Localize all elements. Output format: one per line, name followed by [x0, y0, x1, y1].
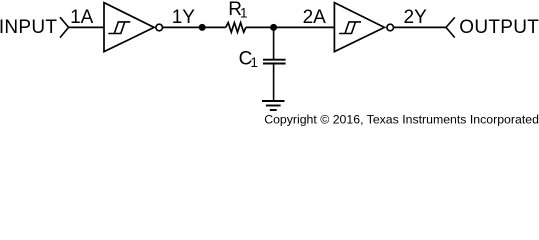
inverter U1 body — [104, 3, 154, 52]
U2 hysteresis symbol — [339, 22, 361, 34]
wire node 2A to C1 — [273, 27, 275, 59]
wire C1 to ground — [273, 64, 275, 102]
svg-text:OUTPUT: OUTPUT — [459, 17, 539, 38]
wire R1 to U2 input (net 2A) — [246, 26, 335, 28]
junction node 1Y — [199, 24, 206, 31]
U1 hysteresis symbol — [108, 22, 130, 34]
svg-text:1: 1 — [250, 55, 258, 70]
input terminal — [60, 17, 69, 37]
U2 inversion bubble — [387, 24, 394, 31]
U1 inversion bubble — [156, 24, 163, 31]
svg-text:1: 1 — [240, 5, 248, 20]
svg-text:1Y: 1Y — [172, 7, 196, 28]
svg-text:Copyright © 2016, Texas Instru: Copyright © 2016, Texas Instruments Inco… — [264, 113, 539, 127]
capacitor C1 — [263, 60, 286, 64]
svg-text:2Y: 2Y — [404, 7, 428, 28]
ground — [262, 101, 285, 110]
svg-text:2A: 2A — [303, 7, 327, 28]
svg-text:1A: 1A — [70, 7, 94, 28]
resistor R1 — [226, 23, 246, 33]
junction node 2A — [270, 24, 277, 31]
wire U1 output to R1 (net 1Y) — [163, 26, 226, 28]
inverter U2 body — [334, 3, 384, 52]
wire INPUT to U1 input (net 1A) — [69, 26, 104, 28]
wire U2 output to OUTPUT terminal (net 2Y) — [393, 26, 446, 28]
svg-text:INPUT: INPUT — [0, 17, 57, 38]
output terminal — [446, 17, 455, 37]
